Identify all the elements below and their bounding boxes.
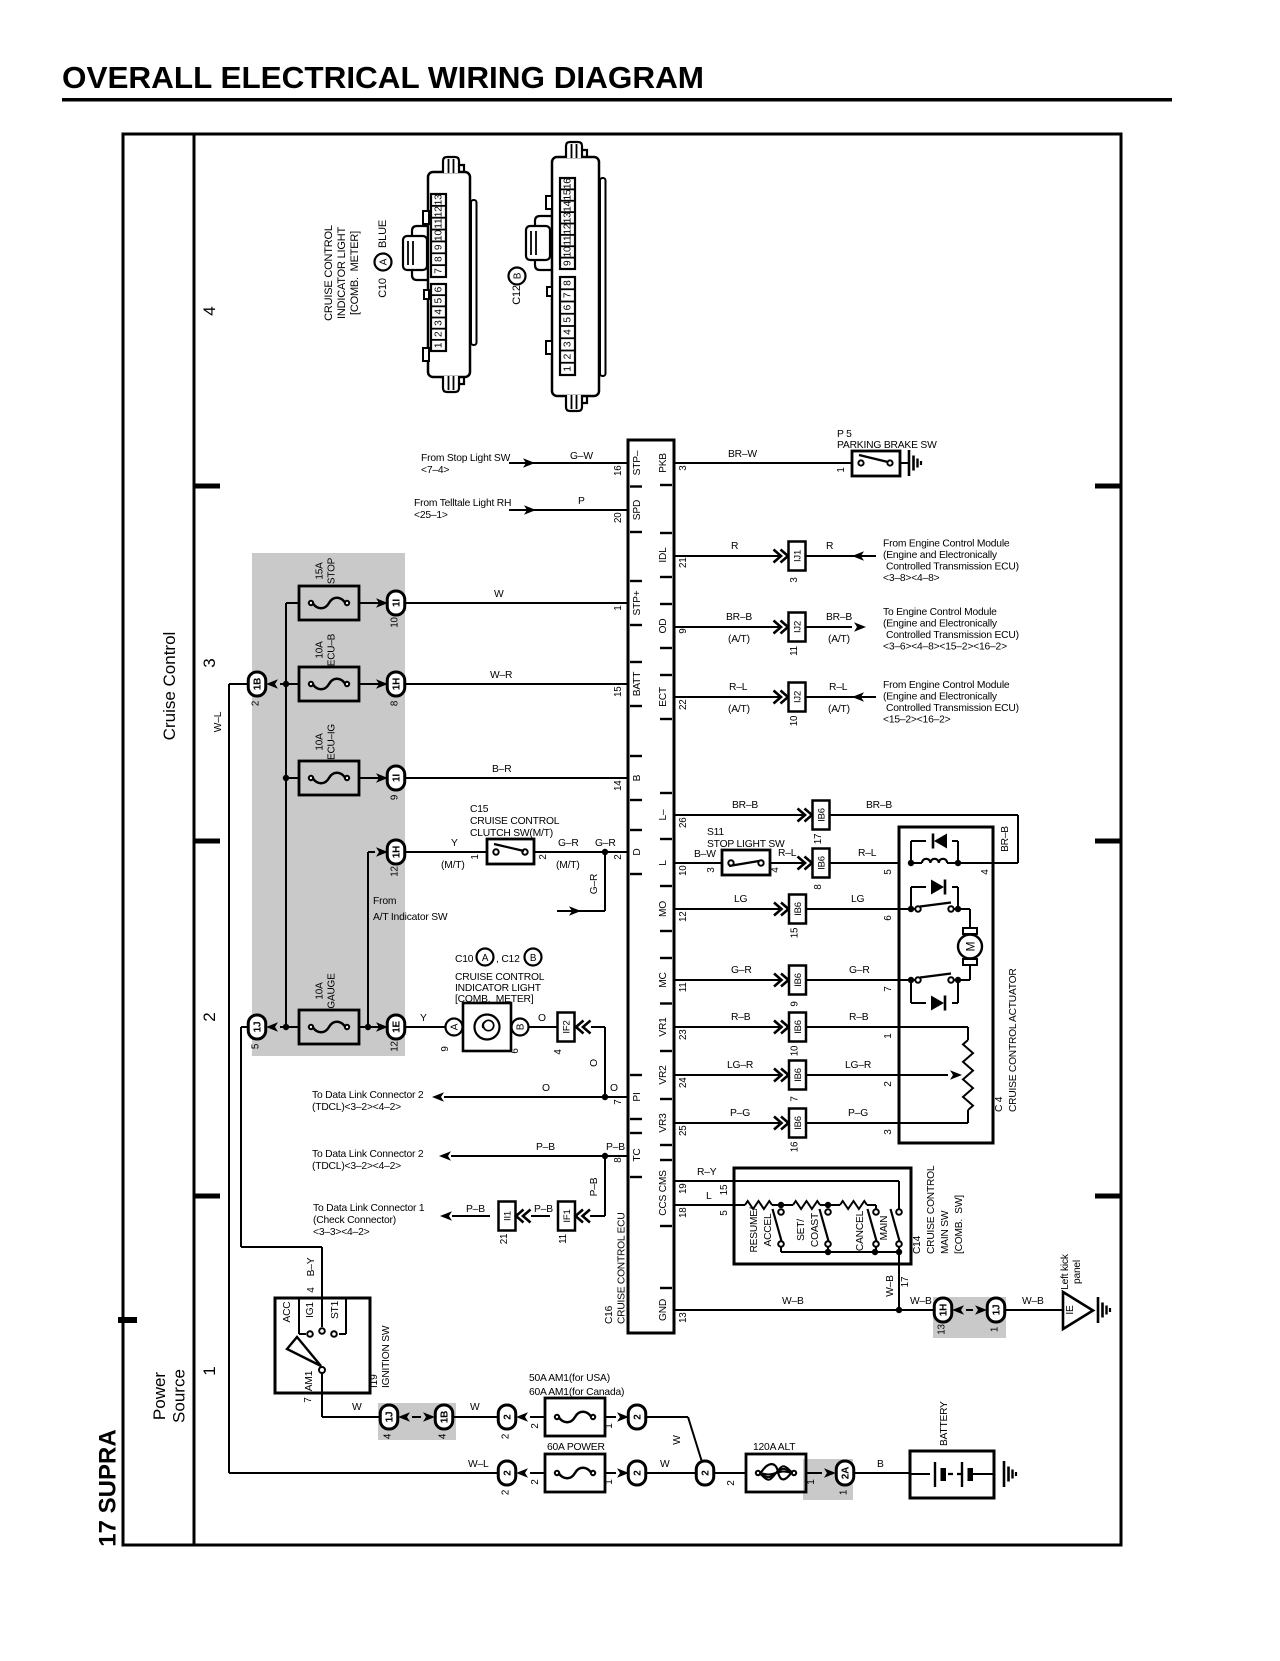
svg-text:7: 7 (303, 1397, 314, 1403)
svg-text:Cruise Control: Cruise Control (160, 632, 179, 741)
svg-text:9: 9 (434, 244, 445, 250)
svg-text:2A: 2A (841, 1467, 852, 1479)
svg-text:1J: 1J (385, 1412, 396, 1423)
svg-text:G–W: G–W (570, 451, 593, 462)
svg-text:8: 8 (390, 700, 401, 706)
svg-text:B: B (877, 1459, 884, 1470)
svg-text:(Check Connector): (Check Connector) (313, 1215, 396, 1226)
svg-text:1: 1 (806, 1479, 817, 1485)
svg-text:ECU–IG: ECU–IG (327, 724, 338, 760)
svg-text:8: 8 (434, 256, 445, 262)
svg-text:CRUISE CONTROL: CRUISE CONTROL (470, 816, 560, 827)
svg-text:PI: PI (632, 1092, 643, 1101)
svg-text:4: 4 (438, 1433, 449, 1439)
svg-text:A: A (482, 953, 489, 964)
svg-text:3: 3 (678, 465, 689, 471)
svg-text:2: 2 (503, 1414, 514, 1420)
svg-text:IB6: IB6 (817, 856, 828, 870)
svg-text:TC: TC (632, 1148, 643, 1161)
svg-text:BR–B: BR–B (866, 800, 892, 811)
svg-text:1: 1 (836, 467, 847, 472)
svg-text:60A POWER: 60A POWER (547, 1442, 605, 1453)
svg-text:O: O (610, 1083, 618, 1094)
svg-text:3: 3 (434, 320, 445, 326)
svg-text:9: 9 (678, 629, 689, 634)
svg-text:From Stop Light SW: From Stop Light SW (421, 453, 511, 464)
svg-text:2: 2 (530, 1479, 541, 1485)
svg-text:B–Y: B–Y (306, 1257, 317, 1276)
svg-text:1: 1 (613, 606, 624, 611)
svg-text:11: 11 (678, 983, 689, 993)
svg-text:(A/T): (A/T) (728, 634, 750, 645)
svg-text:15: 15 (790, 927, 801, 938)
svg-text:11: 11 (558, 1234, 569, 1244)
svg-text:ACC: ACC (282, 1302, 293, 1323)
svg-text:C10: C10 (455, 954, 474, 965)
svg-text:<3–8><4–8>: <3–8><4–8> (883, 573, 940, 584)
svg-text:2: 2 (726, 1480, 737, 1486)
svg-text:16: 16 (790, 1141, 801, 1152)
svg-text:(M/T): (M/T) (556, 860, 580, 871)
svg-text:MC: MC (658, 972, 669, 987)
svg-text:panel: panel (1072, 1260, 1083, 1284)
svg-text:To Data Link Connector 2: To Data Link Connector 2 (312, 1090, 424, 1101)
svg-text:12: 12 (390, 1041, 401, 1052)
svg-text:15: 15 (563, 189, 574, 200)
svg-text:D: D (632, 848, 643, 855)
svg-text:To Engine Control Module: To Engine Control Module (883, 607, 997, 618)
svg-text:A/T Indicator SW: A/T Indicator SW (373, 912, 448, 923)
svg-text:G–R: G–R (558, 838, 579, 849)
svg-text:BR–B: BR–B (1000, 826, 1011, 852)
svg-text:BR–B: BR–B (732, 800, 758, 811)
svg-text:2: 2 (501, 1434, 512, 1439)
svg-text:SPD: SPD (632, 500, 643, 520)
svg-text:1: 1 (604, 1479, 615, 1485)
svg-text:LG–R: LG–R (845, 1060, 871, 1071)
svg-text:CRUISE CONTROL ACTUATOR: CRUISE CONTROL ACTUATOR (1008, 968, 1019, 1112)
svg-text:IB6: IB6 (793, 1068, 804, 1082)
svg-text:IF2: IF2 (562, 1020, 573, 1033)
svg-text:W–B: W–B (1022, 1296, 1044, 1307)
svg-text:5: 5 (251, 1043, 262, 1049)
svg-text:16: 16 (613, 465, 624, 476)
svg-text:<25–1>: <25–1> (414, 510, 448, 521)
svg-text:7: 7 (790, 1096, 801, 1101)
svg-text:STP+: STP+ (632, 590, 643, 615)
svg-text:MAIN SW: MAIN SW (940, 1210, 951, 1254)
svg-text:ACCEL: ACCEL (763, 1213, 774, 1247)
svg-text:5: 5 (719, 1210, 730, 1216)
svg-text:18: 18 (678, 1207, 689, 1218)
svg-text:<3–6><4–8><15–2><16–2>: <3–6><4–8><15–2><16–2> (883, 642, 1007, 653)
svg-text:BR–B: BR–B (826, 612, 852, 623)
svg-text:15: 15 (613, 686, 624, 697)
svg-text:P–B: P–B (466, 1204, 485, 1215)
svg-text:P–G: P–G (848, 1108, 868, 1119)
svg-text:4: 4 (306, 1287, 317, 1293)
svg-text:Y: Y (451, 838, 458, 849)
svg-text:IDL: IDL (658, 547, 669, 563)
svg-text:VR1: VR1 (658, 1017, 669, 1037)
svg-text:RESUME/: RESUME/ (749, 1207, 760, 1252)
svg-text:GAUGE: GAUGE (327, 973, 338, 1009)
svg-text:2: 2 (251, 701, 262, 706)
svg-text:IG1: IG1 (305, 1302, 316, 1318)
svg-text:[COMB. METER]: [COMB. METER] (349, 231, 361, 315)
svg-text:G–R: G–R (589, 874, 600, 894)
svg-text:50A AM1(for USA): 50A AM1(for USA) (529, 1373, 610, 1384)
svg-text:1: 1 (563, 366, 574, 372)
svg-text:LG: LG (734, 894, 748, 905)
svg-text:(A/T): (A/T) (828, 704, 850, 715)
svg-text:W–B: W–B (885, 1275, 896, 1297)
svg-text:B: B (516, 1023, 527, 1030)
svg-text:2: 2 (538, 854, 549, 859)
svg-text:1H: 1H (392, 846, 403, 858)
svg-text:2: 2 (530, 1423, 541, 1429)
svg-text:ECU–B: ECU–B (327, 633, 338, 666)
svg-text:R–Y: R–Y (697, 1167, 717, 1178)
svg-text:[COMB. SW]: [COMB. SW] (954, 1195, 965, 1254)
svg-text:2: 2 (501, 1490, 512, 1495)
svg-text:4: 4 (770, 867, 781, 873)
svg-text:CCS CMS: CCS CMS (658, 1170, 669, 1216)
svg-text:10: 10 (390, 617, 401, 628)
svg-text:, C12: , C12 (496, 954, 520, 965)
svg-text:2: 2 (633, 1414, 644, 1420)
svg-text:10A: 10A (315, 982, 326, 1000)
svg-text:Y: Y (420, 1013, 427, 1024)
svg-text:4: 4 (553, 1049, 564, 1055)
svg-text:P–G: P–G (730, 1108, 750, 1119)
svg-text:IB6: IB6 (793, 1020, 804, 1034)
svg-text:ECT: ECT (658, 687, 669, 707)
svg-text:INDICATOR LIGHT: INDICATOR LIGHT (336, 227, 348, 319)
svg-text:7: 7 (434, 268, 445, 274)
svg-text:Controlled Transmission ECU): Controlled Transmission ECU) (886, 703, 1019, 714)
svg-text:10: 10 (434, 230, 445, 241)
svg-text:G–R: G–R (849, 965, 870, 976)
svg-text:2: 2 (200, 1012, 219, 1021)
svg-text:C10: C10 (377, 278, 389, 298)
svg-text:2: 2 (563, 353, 574, 359)
svg-text:BR–B: BR–B (726, 612, 752, 623)
svg-text:2: 2 (633, 1470, 644, 1476)
svg-text:13: 13 (434, 194, 445, 205)
svg-text:W: W (470, 1402, 480, 1413)
svg-text:OVERALL ELECTRICAL WIRING DIAG: OVERALL ELECTRICAL WIRING DIAGRAM (62, 60, 704, 95)
svg-text:O: O (542, 1083, 550, 1094)
svg-text:GND: GND (658, 1299, 669, 1321)
svg-text:19: 19 (678, 1184, 689, 1195)
svg-text:<7–4>: <7–4> (421, 465, 449, 476)
svg-text:W–B: W–B (782, 1296, 804, 1307)
svg-text:1B: 1B (253, 678, 264, 690)
svg-text:120A ALT: 120A ALT (753, 1442, 796, 1453)
svg-text:17 SUPRA: 17 SUPRA (95, 1429, 122, 1546)
svg-text:OD: OD (658, 619, 669, 634)
svg-text:C12: C12 (511, 285, 523, 305)
svg-text:PARKING BRAKE SW: PARKING BRAKE SW (837, 440, 937, 451)
svg-text:5: 5 (883, 869, 894, 875)
svg-text:LG: LG (851, 894, 865, 905)
svg-text:Power: Power (150, 1372, 169, 1421)
svg-text:[COMB. METER]: [COMB. METER] (455, 994, 534, 1005)
svg-text:CANCEL: CANCEL (855, 1210, 866, 1251)
svg-text:15A: 15A (315, 562, 326, 580)
svg-text:12: 12 (390, 866, 401, 877)
svg-text:IJ2: IJ2 (793, 691, 804, 703)
svg-text:R–B: R–B (731, 1012, 751, 1023)
svg-text:From Engine Control Module: From Engine Control Module (883, 539, 1010, 550)
svg-text:R–L: R–L (778, 848, 797, 859)
svg-text:INDICATOR LIGHT: INDICATOR LIGHT (455, 983, 542, 994)
svg-text:B: B (632, 774, 643, 781)
svg-text:O: O (589, 1059, 600, 1067)
svg-text:R–L: R–L (729, 682, 748, 693)
svg-text:M: M (964, 942, 978, 952)
svg-text:L: L (658, 860, 669, 866)
svg-text:3: 3 (789, 577, 800, 583)
svg-text:16: 16 (563, 178, 574, 189)
svg-text:S11: S11 (707, 827, 724, 838)
svg-text:C 4: C 4 (994, 1096, 1005, 1112)
svg-text:P–B: P–B (534, 1204, 553, 1215)
svg-text:R–L: R–L (829, 682, 848, 693)
svg-text:9: 9 (563, 260, 574, 266)
svg-text:From Telltale Light RH: From Telltale Light RH (414, 498, 511, 509)
svg-text:A: A (450, 1023, 461, 1030)
svg-text:IJ2: IJ2 (793, 621, 804, 633)
svg-text:7: 7 (883, 986, 894, 992)
svg-text:2: 2 (434, 331, 445, 337)
svg-text:14: 14 (613, 780, 624, 791)
svg-text:To Data Link Connector 2: To Data Link Connector 2 (312, 1149, 424, 1160)
svg-text:12: 12 (678, 912, 689, 923)
svg-text:17: 17 (813, 834, 824, 845)
svg-text:BR–W: BR–W (728, 449, 757, 460)
svg-text:3: 3 (706, 867, 717, 873)
svg-text:20: 20 (613, 512, 624, 523)
svg-text:2: 2 (701, 1470, 712, 1476)
svg-text:COAST: COAST (810, 1213, 821, 1247)
svg-text:L–: L– (658, 809, 669, 820)
svg-text:STOP LIGHT SW: STOP LIGHT SW (707, 839, 785, 850)
svg-text:B–W: B–W (694, 849, 716, 860)
svg-text:W: W (352, 1402, 362, 1413)
svg-text:R: R (826, 541, 833, 552)
svg-text:8: 8 (613, 1157, 624, 1163)
svg-text:<3–3><4–2>: <3–3><4–2> (313, 1227, 370, 1238)
svg-text:From Engine Control Module: From Engine Control Module (883, 680, 1010, 691)
svg-text:IB6: IB6 (793, 1116, 804, 1130)
svg-text:13: 13 (563, 212, 574, 223)
svg-text:26: 26 (678, 817, 689, 828)
svg-text:15: 15 (719, 1184, 730, 1195)
svg-text:10: 10 (678, 865, 689, 876)
svg-text:IJ1: IJ1 (793, 550, 804, 562)
svg-text:(M/T): (M/T) (441, 860, 465, 871)
svg-text:1: 1 (839, 1490, 850, 1495)
svg-text:5: 5 (563, 317, 574, 323)
svg-text:7: 7 (613, 1100, 624, 1105)
svg-text:IB6: IB6 (793, 902, 804, 916)
svg-text:25: 25 (678, 1125, 689, 1136)
svg-text:1: 1 (883, 1033, 894, 1039)
svg-text:13: 13 (937, 1324, 948, 1335)
svg-text:R–L: R–L (858, 848, 877, 859)
svg-text:6: 6 (563, 304, 574, 310)
svg-text:P–B: P–B (606, 1142, 625, 1153)
svg-text:10: 10 (789, 715, 800, 726)
svg-text:P 5: P 5 (837, 429, 852, 440)
svg-text:21: 21 (499, 1234, 510, 1245)
svg-text:17: 17 (900, 1276, 911, 1287)
svg-text:VR3: VR3 (658, 1113, 669, 1133)
svg-text:MO: MO (658, 901, 669, 917)
svg-text:R–B: R–B (849, 1012, 869, 1023)
svg-text:23: 23 (678, 1029, 689, 1040)
svg-text:W: W (660, 1459, 670, 1470)
svg-text:P–B: P–B (589, 1177, 600, 1196)
svg-text:AM1: AM1 (304, 1370, 315, 1391)
svg-text:Source: Source (170, 1369, 189, 1423)
svg-text:<15–2><16–2>: <15–2><16–2> (883, 715, 951, 726)
svg-text:6: 6 (883, 915, 894, 921)
svg-text:24: 24 (678, 1077, 689, 1088)
svg-text:LG–R: LG–R (727, 1060, 753, 1071)
svg-text:B: B (530, 953, 537, 964)
svg-text:10A: 10A (315, 641, 326, 659)
svg-text:8: 8 (813, 884, 824, 890)
svg-text:(TDCL)<3–2><4–2>: (TDCL)<3–2><4–2> (312, 1102, 401, 1113)
svg-text:Left kick: Left kick (1060, 1253, 1071, 1290)
svg-text:3: 3 (200, 658, 219, 667)
svg-text:3: 3 (563, 341, 574, 347)
svg-text:CRUISE CONTROL: CRUISE CONTROL (455, 972, 545, 983)
svg-text:G–R: G–R (595, 838, 616, 849)
svg-text:G–R: G–R (731, 965, 752, 976)
svg-text:2: 2 (503, 1470, 514, 1476)
svg-text:2: 2 (883, 1081, 894, 1087)
svg-text:To Data Link Connector 1: To Data Link Connector 1 (313, 1203, 425, 1214)
svg-text:1: 1 (434, 342, 445, 348)
svg-text:11: 11 (789, 646, 800, 656)
svg-text:C15: C15 (470, 804, 489, 815)
svg-text:9: 9 (390, 795, 401, 800)
svg-text:W–B: W–B (910, 1296, 932, 1307)
svg-text:C16: C16 (604, 1305, 615, 1324)
svg-text:MAIN: MAIN (879, 1216, 890, 1241)
svg-text:1I: 1I (392, 599, 403, 607)
svg-text:1I: 1I (392, 774, 403, 782)
svg-text:(A/T): (A/T) (728, 704, 750, 715)
svg-text:(Engine and Electronically: (Engine and Electronically (883, 692, 998, 703)
svg-text:C14: C14 (912, 1235, 923, 1254)
svg-text:L: L (706, 1191, 712, 1202)
svg-text:P–B: P–B (536, 1142, 555, 1153)
svg-text:22: 22 (678, 700, 689, 711)
svg-text:1E: 1E (392, 1021, 403, 1033)
svg-text:60A AM1(for Canada): 60A AM1(for Canada) (529, 1387, 624, 1398)
svg-text:14: 14 (563, 200, 574, 211)
svg-text:CRUISE CONTROL: CRUISE CONTROL (926, 1165, 937, 1254)
svg-text:CRUISE CONTROL ECU: CRUISE CONTROL ECU (617, 1213, 628, 1325)
svg-text:B–R: B–R (492, 764, 511, 775)
svg-text:IE: IE (1065, 1305, 1076, 1315)
svg-text:2: 2 (613, 855, 624, 860)
svg-text:Controlled Transmission ECU): Controlled Transmission ECU) (886, 562, 1019, 573)
svg-text:9: 9 (440, 1046, 451, 1051)
svg-text:O: O (538, 1013, 546, 1024)
svg-text:1: 1 (604, 1423, 615, 1429)
svg-text:4: 4 (383, 1433, 394, 1439)
svg-text:IB6: IB6 (793, 973, 804, 987)
svg-text:(A/T): (A/T) (828, 634, 850, 645)
svg-text:6: 6 (434, 286, 445, 292)
svg-text:CRUISE CONTROL: CRUISE CONTROL (323, 225, 335, 321)
svg-text:1: 1 (470, 854, 481, 859)
svg-text:1H: 1H (939, 1304, 950, 1316)
svg-text:From: From (373, 896, 396, 907)
svg-text:W–L: W–L (213, 711, 224, 732)
svg-text:4: 4 (434, 309, 445, 315)
svg-text:W–R: W–R (490, 670, 512, 681)
svg-text:3: 3 (883, 1129, 894, 1135)
svg-text:8: 8 (563, 280, 574, 286)
svg-text:A: A (379, 258, 390, 265)
svg-text:1: 1 (200, 1366, 219, 1375)
svg-text:PKB: PKB (658, 453, 669, 473)
svg-text:4: 4 (980, 869, 991, 875)
svg-text:21: 21 (678, 558, 689, 569)
svg-text:Controlled Transmission ECU): Controlled Transmission ECU) (886, 630, 1019, 641)
svg-text:BATT: BATT (632, 672, 643, 696)
svg-text:CLUTCH SW(M/T): CLUTCH SW(M/T) (470, 828, 553, 839)
svg-text:STP–: STP– (632, 450, 643, 475)
svg-text:1H: 1H (392, 678, 403, 690)
svg-text:5: 5 (434, 297, 445, 303)
svg-text:1J: 1J (992, 1305, 1003, 1316)
svg-text:6: 6 (510, 1048, 521, 1054)
svg-text:9: 9 (790, 1001, 801, 1006)
svg-text:1B: 1B (440, 1411, 451, 1423)
svg-text:12: 12 (563, 223, 574, 234)
svg-text:(TDCL)<3–2><4–2>: (TDCL)<3–2><4–2> (312, 1161, 401, 1172)
svg-text:BLUE: BLUE (377, 220, 389, 248)
svg-text:B: B (513, 272, 524, 279)
svg-text:IGNITION SW: IGNITION SW (381, 1325, 392, 1388)
svg-text:BATTERY: BATTERY (939, 1401, 950, 1446)
svg-text:10A: 10A (315, 733, 326, 751)
svg-text:7: 7 (563, 292, 574, 298)
svg-text:11: 11 (434, 218, 445, 229)
svg-text:W: W (494, 589, 504, 600)
svg-text:SET/: SET/ (796, 1219, 807, 1241)
svg-text:1: 1 (990, 1327, 1001, 1332)
svg-text:11: 11 (563, 235, 574, 246)
svg-text:R: R (731, 541, 738, 552)
svg-text:VR2: VR2 (658, 1065, 669, 1085)
svg-text:ST1: ST1 (330, 1300, 341, 1319)
svg-text:12: 12 (434, 206, 445, 217)
svg-text:I19: I19 (369, 1374, 380, 1388)
svg-text:W: W (672, 1435, 683, 1445)
svg-text:IB6: IB6 (817, 808, 828, 822)
svg-text:10: 10 (563, 246, 574, 257)
svg-text:(Engine and Electronically: (Engine and Electronically (883, 619, 998, 630)
